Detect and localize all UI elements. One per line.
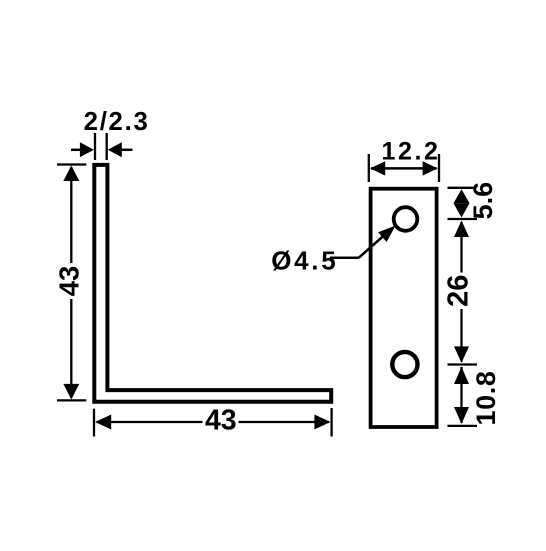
- dimension 43 vertical: dimension line: [70, 167, 72, 398]
- svg-text:2/2.3: 2/2.3: [84, 108, 150, 136]
- svg-text:26: 26: [443, 275, 475, 307]
- L-profile side view outline: [94, 165, 331, 402]
- dimension 2/2.3 left tail line: [71, 149, 82, 152]
- svg-text:43: 43: [205, 404, 237, 436]
- right chain tick 3 (hole H2 centre): [448, 363, 478, 365]
- dimension 10.8: bottom arrow: [454, 407, 469, 424]
- leader line horizontal segment: [330, 257, 359, 260]
- plate front view rectangle: [371, 189, 437, 427]
- svg-text:5.6: 5.6: [468, 182, 498, 220]
- dimension 43 horizontal: right extension line: [330, 408, 332, 437]
- right chain tick 2 (hole H1 centre): [448, 218, 478, 220]
- svg-text:43: 43: [53, 266, 84, 297]
- svg-text:12.2: 12.2: [381, 137, 440, 165]
- svg-text:10.8: 10.8: [471, 371, 501, 426]
- leader arrow head: [378, 226, 395, 242]
- dimension 10.8: dimension line: [460, 367, 462, 423]
- right chain tick 4 (plate bottom): [448, 425, 478, 427]
- leader line diagonal segment: [359, 235, 385, 258]
- dimension 43 horizontal: text halo: [203, 406, 239, 432]
- dimension 12.2: right extension line: [438, 154, 440, 182]
- dimension 2/2.3 left arrow: [80, 142, 94, 157]
- dimension 26: dimension line: [460, 222, 462, 362]
- dimension 2/2.3 right arrow: [108, 142, 122, 157]
- right chain tick 1 (plate top): [448, 187, 476, 189]
- dimension 43 horizontal: left arrow: [95, 415, 111, 430]
- dimension 43 horizontal: left extension line: [93, 409, 95, 437]
- dimension 43 horizontal: dimension line: [97, 421, 330, 423]
- dimension 2/2.3 extension line right: [106, 133, 108, 160]
- dimension 12.2: dimension line: [371, 167, 437, 170]
- dimension 2/2.3 right tail line: [120, 149, 132, 152]
- dimension 43 vertical: text halo: [56, 263, 80, 299]
- dimension 43 horizontal: right arrow: [314, 415, 330, 430]
- dimension 26: text halo: [446, 273, 471, 310]
- dimension 5.6 double arrow diamond: [454, 189, 470, 203]
- dimension 43 vertical: top tick: [57, 163, 86, 165]
- hole H1 (top): [394, 207, 418, 231]
- dimension 43 vertical: bottom arrow: [63, 384, 79, 400]
- dimension 26: bottom arrow: [454, 346, 469, 363]
- dimension 12.2: right arrow: [423, 161, 438, 175]
- dimension 12.2: left arrow: [370, 161, 385, 175]
- dimension 43 vertical: top arrow: [63, 166, 79, 182]
- dimension 12.2: left extension line: [368, 154, 370, 182]
- hole H2 (bottom): [392, 352, 417, 377]
- dimension 10.8: top arrow: [454, 367, 469, 384]
- dimension 26: top arrow: [454, 221, 469, 238]
- svg-text:Ø4.5: Ø4.5: [271, 246, 338, 276]
- dimension 2/2.3 extension line left: [94, 133, 96, 160]
- dimension 43 vertical: bottom tick: [57, 399, 86, 401]
